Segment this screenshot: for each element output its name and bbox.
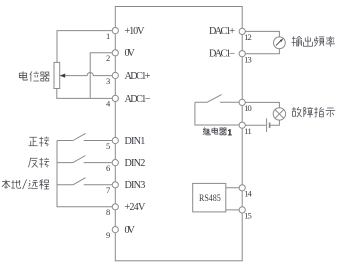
- wire terminal12 DAC1+ to meter: [242, 31, 279, 37]
- terminal 7: [112, 182, 118, 188]
- terminal 6: [112, 160, 118, 166]
- terminal 14: [239, 185, 245, 191]
- svg-text:8: 8: [106, 207, 110, 217]
- RS485 module box: [193, 183, 226, 212]
- battery plate short: [269, 123, 271, 128]
- svg-text:DAC1+: DAC1+: [209, 26, 235, 37]
- wire RS485 to terminal15: [226, 209, 242, 211]
- label 电位器 potentiometer: [19, 71, 49, 81]
- switch 反转 to DIN2: [57, 156, 115, 163]
- svg-text:14: 14: [244, 189, 252, 199]
- svg-text:0V: 0V: [125, 48, 136, 59]
- battery plate long: [266, 118, 268, 132]
- terminal 4: [112, 95, 118, 101]
- svg-text:9: 9: [106, 230, 110, 240]
- wire RS485 to terminal14: [226, 187, 242, 189]
- svg-text:11: 11: [244, 126, 252, 136]
- svg-text:ADC1+: ADC1+: [125, 71, 151, 82]
- svg-text:10: 10: [244, 103, 252, 113]
- potentiometer wiper arrow: [60, 74, 65, 78]
- wire potentiometer bottom to terminal4 ADC1-: [57, 89, 116, 99]
- wire terminal13 DAC1- to meter: [242, 49, 279, 54]
- potentiometer body: [54, 62, 60, 88]
- svg-text:7: 7: [106, 185, 110, 195]
- wire potentiometer wiper to terminal3 ADC1+ with crossover hump: [61, 72, 116, 75]
- label 正转 forward: [29, 137, 50, 147]
- svg-text:ADC1−: ADC1−: [125, 94, 151, 105]
- svg-text:+10V: +10V: [125, 26, 146, 37]
- pin numbers right: [244, 32, 252, 221]
- svg-text:3: 3: [106, 76, 110, 86]
- svg-text:DIN2: DIN2: [125, 158, 146, 169]
- inverter outline: [115, 7, 242, 261]
- svg-text:1: 1: [106, 31, 110, 41]
- svg-text:0V: 0V: [125, 225, 136, 236]
- terminal 12: [239, 28, 245, 34]
- terminal 5: [112, 137, 118, 143]
- switch 本地/远程 to DIN3: [57, 178, 115, 185]
- wire terminal11 to battery and lamp: [242, 120, 279, 125]
- terminal 3: [112, 72, 118, 78]
- svg-text:15: 15: [244, 211, 252, 221]
- label 故障指示 fault indication: [292, 107, 335, 118]
- fault lamp circle with cross: [273, 108, 285, 120]
- wire switch common rail to terminal8 +24V: [57, 141, 115, 207]
- svg-text:2: 2: [106, 53, 110, 63]
- terminal 2: [112, 50, 118, 56]
- terminal 8: [112, 204, 118, 210]
- svg-text:5: 5: [106, 141, 110, 151]
- meter needle: [276, 41, 281, 46]
- svg-text:DIN3: DIN3: [125, 180, 146, 191]
- svg-text:DIN1: DIN1: [125, 136, 146, 147]
- label 本地/远程 local-remote: [2, 180, 49, 190]
- terminal circles: [112, 28, 245, 233]
- terminal 9: [112, 227, 118, 233]
- switch 正转 to DIN1: [57, 133, 115, 140]
- wire relay contact to terminal11: [195, 102, 242, 125]
- relay contact K1: [195, 95, 242, 103]
- svg-text:13: 13: [244, 55, 252, 65]
- terminal 1: [112, 28, 118, 34]
- svg-text:+24V: +24V: [125, 202, 146, 213]
- svg-text:6: 6: [106, 163, 110, 173]
- terminal 15: [239, 207, 245, 213]
- terminal labels: [125, 26, 236, 236]
- label 继电器1 relay 1: [203, 127, 232, 137]
- terminal 10: [239, 99, 245, 105]
- frequency meter circle: [274, 37, 286, 49]
- svg-text:1: 1: [228, 127, 232, 137]
- wire terminal2 0V down to ADC1- net: [90, 53, 115, 99]
- svg-text:DAC1−: DAC1−: [209, 49, 235, 60]
- svg-text:RS485: RS485: [199, 194, 221, 204]
- label 反转 reverse: [28, 158, 49, 168]
- terminal 11: [239, 122, 245, 128]
- pin numbers left: [106, 31, 111, 240]
- wire terminal10 to fault lamp: [242, 102, 279, 107]
- svg-text:12: 12: [244, 32, 252, 42]
- svg-text:4: 4: [106, 99, 111, 109]
- terminal 13: [239, 51, 245, 57]
- label 输出频率 output frequency: [292, 36, 335, 47]
- wire terminal1 +10V to potentiometer top: [57, 31, 115, 63]
